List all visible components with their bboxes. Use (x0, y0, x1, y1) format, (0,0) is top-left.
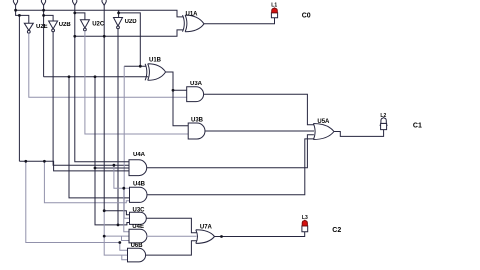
junction (25.8,161.3) (24, 160, 27, 163)
input connector stub 1 (13, 0, 17, 10)
xor gate U1A (183, 15, 205, 32)
wire U6B input 3 stub (122, 255, 128, 260)
wire U3A output to U5A input 1 (204, 94, 314, 125)
svg-text:U1A: U1A (186, 11, 199, 17)
svg-text:U2B: U2B (59, 22, 72, 28)
LED L1 (lit) (271, 8, 277, 18)
wire U2B output down (53, 32, 129, 165)
wire node V124 down to U3C input 2 (124, 66, 129, 218)
wire U4A input 3 stub from V95 (95, 167, 129, 169)
LED L3 (lit) (302, 220, 308, 232)
and gate U4A (129, 160, 147, 176)
and gate U3C (130, 212, 147, 224)
svg-text:U3B: U3B (191, 117, 204, 123)
wire rail1 to U1A top input (16, 10, 184, 17)
junction (44.4,161.3) (43, 160, 46, 163)
and gate U4B (130, 187, 147, 202)
svg-text:U2D: U2D (125, 19, 138, 25)
inverter U2E (24, 23, 33, 33)
wire V25 down to U6B feeder (26, 161, 128, 250)
input connector stub 2 (41, 0, 45, 10)
svg-text:U1B: U1B (149, 58, 162, 64)
xor gate U1B (145, 64, 166, 81)
wire U6B output to U7A input 3 (146, 241, 197, 255)
junction (74.8,36.3) (73, 35, 76, 38)
wire tap to inverter U2D input and feed to node V140 (119, 10, 141, 66)
wire hook3 vertical down to rail2 (74, 5, 76, 36)
input connector stub 4 (102, 0, 106, 5)
wire H_c rail to U1B lower input (44, 76, 149, 78)
wire U3C output to U7A input 1 (146, 218, 197, 233)
LED L2 (off) (380, 118, 388, 130)
svg-text:U7A: U7A (200, 224, 213, 230)
wire H_a distribution from V19 (19, 161, 129, 171)
wire V43 down to H_c rail (43, 15, 45, 76)
junction (113.9,165.2) (113, 164, 116, 167)
wire rail2 to U1A bottom input (75, 30, 184, 36)
wire V69 from H_c down to U4B input 2 (69, 77, 130, 198)
or gate U7A (196, 230, 215, 244)
wire U1B top input from node V124 (124, 65, 146, 67)
junction (140.3,66.2) (139, 65, 142, 68)
junction (43.6,10.2) (42, 9, 45, 12)
wire tap to inverter U2B input (44, 10, 54, 21)
wire U7A output to LED L3 (215, 232, 305, 237)
inverter U2C (80, 20, 89, 31)
svg-text:U6B: U6B (131, 243, 144, 249)
junction (104.2,36.3) (103, 35, 106, 38)
wire U1A output to LED L1 (204, 18, 275, 24)
wire tap to inverter U2E input (16, 10, 29, 23)
wire U4E input 3 stub (122, 236, 130, 240)
svg-text:U3A: U3A (190, 81, 203, 87)
wire V44 down to U4B input 3 (44, 161, 129, 202)
wire V95 from H_c down to U3C input 3 (95, 77, 130, 225)
junction (69,76.8) (68, 75, 71, 78)
junction (19.4,15.4) (18, 14, 21, 17)
junction (95.0,76.8) (94, 75, 97, 78)
or gate U5A (313, 124, 334, 140)
svg-text:U5A: U5A (317, 119, 330, 125)
svg-text:U4B: U4B (133, 182, 146, 188)
wire U4E output to U7A input 2 (147, 235, 197, 237)
and gate U3B (188, 123, 205, 139)
wire node V19 feed down to lower web (18, 15, 20, 161)
wire U3B output to U5A input 2 (205, 130, 314, 132)
wire tap to inverter U2C input (75, 13, 85, 20)
svg-text:L2: L2 (380, 113, 386, 119)
wire V104 grey continuation to U4E and U6B inputs (104, 211, 129, 255)
svg-text:L3: L3 (302, 215, 308, 221)
junction (15.6,10.2) (14, 9, 17, 12)
wire hook4 feed down to U3C input 1 (104, 36, 129, 214)
wire hook3 feed down to U4A input 1 (75, 36, 129, 162)
svg-text:U3C: U3C (133, 208, 146, 214)
wire U5A output to LED L2 (334, 130, 384, 137)
wire U4B output to U5A input 4 (147, 139, 314, 195)
input connector stub 3 (73, 0, 77, 5)
junction (118.6,12.9) (117, 12, 120, 15)
svg-text:C0: C0 (302, 12, 311, 19)
junction (119.8,242.5) (118, 241, 121, 244)
junction (173,90.3) (172, 89, 175, 92)
wire U2E output down to U3A lower input (29, 33, 187, 97)
junction (95.0,168.0) (94, 167, 97, 170)
svg-text:L1: L1 (271, 3, 277, 9)
wire U2C output down to U3B lower input (85, 31, 188, 134)
svg-text:C1: C1 (413, 122, 422, 129)
svg-text:U2E: U2E (36, 24, 48, 30)
junction (104.2,210.7) (103, 209, 106, 212)
junction (74.8,12.9) (73, 12, 76, 15)
and gate U4E (129, 229, 147, 243)
junction (43.6,15.4) (42, 14, 45, 17)
wire grey drop to U4E input 1 (124, 188, 129, 232)
junction (221.5,236.5) (220, 235, 223, 238)
svg-text:U2C: U2C (92, 21, 105, 27)
and gate U3A (187, 87, 204, 102)
wire U2D output down to node (118,224.9) (117, 29, 119, 225)
junction (118.0,224.9) (117, 224, 120, 227)
junction (104.2,236.1) (103, 235, 106, 238)
wire hook4 vertical down through rails (103, 5, 105, 36)
junction (123.8,188.2) (122, 187, 125, 190)
wire grey drop to U4B input 1 (114, 165, 130, 188)
inverter U2D (114, 18, 123, 29)
svg-text:U4A: U4A (133, 152, 146, 158)
inverter U2B (49, 21, 58, 32)
svg-text:C2: C2 (332, 227, 341, 234)
svg-text:U4E: U4E (132, 224, 144, 230)
and gate U6B (128, 248, 146, 262)
wire U1B output to U3A and down to U3B (166, 72, 189, 126)
wire U4A output to U5A input 3 (147, 135, 314, 168)
